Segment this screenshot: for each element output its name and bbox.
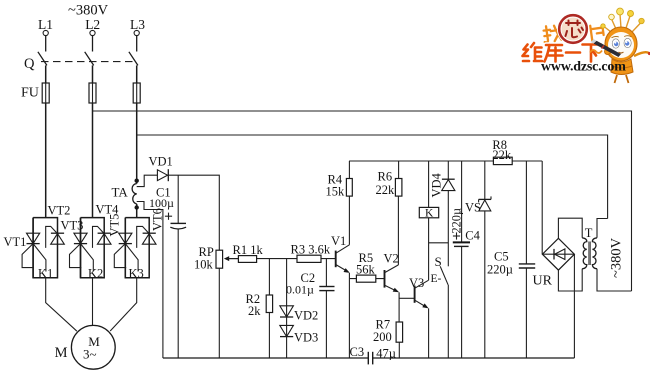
diode VD1 <box>157 169 168 181</box>
wire C2 branch top <box>325 259 327 287</box>
label C1 plus sign <box>165 213 172 220</box>
svg-text:E-: E- <box>431 273 442 285</box>
wire C4 branch top <box>461 161 463 242</box>
resistor R7 <box>396 322 403 342</box>
capacitor C1 (electrolytic) <box>170 223 186 229</box>
capacitor C3 <box>368 352 372 365</box>
transformer T secondary winding <box>582 238 587 269</box>
wire pair2 left leg <box>80 218 82 278</box>
transformer T core <box>589 242 590 266</box>
wire L3 switch to TA <box>136 65 138 183</box>
wire K top to rail <box>428 161 430 207</box>
capacitor C5 <box>519 264 535 268</box>
wire L3 TA to pair3 <box>136 204 138 218</box>
capacitor C2 <box>319 287 334 291</box>
zener diode VS <box>479 196 491 211</box>
wire V1 collector to R4 <box>348 196 350 245</box>
svg-text:TA: TA <box>112 185 129 200</box>
wire fuse1 element <box>45 83 47 103</box>
wire VD1 cathode to RP branch <box>168 175 220 250</box>
svg-text:0.01µ: 0.01µ <box>286 283 314 297</box>
transistor V1 <box>336 245 350 273</box>
wire VT5 cathode hook <box>114 244 126 268</box>
potentiometer RP <box>216 250 223 268</box>
wire VT3 gate <box>81 244 94 272</box>
wire V2 emitter junction <box>398 292 400 322</box>
svg-text:VD3: VD3 <box>294 331 318 345</box>
thyristor VT6 <box>142 233 156 244</box>
switch Q pole 3 blade <box>129 52 138 66</box>
wire pair3 left leg <box>124 218 126 278</box>
wire base bus (RP to V1 base) <box>227 258 336 260</box>
thyristor VT2 <box>51 233 65 244</box>
wire V2 collector to R6 <box>397 196 399 265</box>
wire C5 bottom to rail <box>525 268 527 358</box>
wire pair2 to motor <box>92 278 94 326</box>
relay K coil box <box>419 207 438 217</box>
wire R2 branch <box>268 259 270 358</box>
wire V2 emitter to V3 base <box>399 297 415 299</box>
thyristor VT1 <box>27 233 40 243</box>
wire TA bottom tap to common rail <box>137 202 163 359</box>
svg-text:VT2: VT2 <box>48 204 71 218</box>
wire S bottom to rail <box>447 285 449 358</box>
wire VT2 gate hook <box>46 226 57 248</box>
wire pair1 left leg <box>32 218 34 278</box>
node L3 terminal <box>130 17 145 36</box>
wire fuse3 element <box>136 83 138 103</box>
svg-text:www.dzsc.com: www.dzsc.com <box>541 60 626 75</box>
svg-text:VT6: VT6 <box>151 208 165 231</box>
wire UR top AC to T secondary <box>558 218 582 238</box>
wire C4 bottom to rail <box>461 246 463 358</box>
wire pair1 to motor <box>46 278 77 331</box>
wire L3 drop to switch <box>136 36 138 52</box>
wire 380V feed B (L3 to transformer) <box>137 135 608 219</box>
wire K bottom to VD4 link <box>429 242 449 244</box>
wire C1 positive lead <box>177 175 179 223</box>
wire V3 collector to relay K <box>428 218 430 280</box>
wire T primary top lead <box>597 219 608 238</box>
svg-text:3~: 3~ <box>83 347 97 362</box>
thyristor module 3 frame <box>125 218 149 278</box>
wire VS branch top <box>484 161 486 199</box>
wire bottom common rail left <box>163 357 368 359</box>
svg-text:VD2: VD2 <box>294 309 318 323</box>
wire VT4 gate hook <box>93 226 104 248</box>
svg-text:FU: FU <box>21 86 39 101</box>
wire UR minus to bottom rail <box>573 254 575 358</box>
fuse FU3 <box>133 83 140 103</box>
svg-text:VT5: VT5 <box>108 214 122 237</box>
resistor R2 <box>266 295 272 313</box>
thyristor VT4 <box>97 233 111 244</box>
svg-text:Q: Q <box>24 56 35 72</box>
wire 380V feed A (L2 to transformer right leg) <box>93 111 632 291</box>
switch Q pole 2 blade <box>85 52 94 66</box>
resistor R8 <box>493 157 512 164</box>
thyristor module 2 frame <box>81 218 105 278</box>
svg-text:2k: 2k <box>248 304 261 318</box>
svg-text:C3: C3 <box>350 345 365 359</box>
wire pair3 to motor <box>110 278 137 331</box>
wire VD4 branch top <box>447 161 449 179</box>
wire VT5 gate <box>125 244 138 272</box>
motor M circle <box>71 325 115 369</box>
transformer T primary winding <box>592 238 597 269</box>
capacitor C4 (electrolytic) <box>453 242 470 246</box>
transistor V3 <box>415 280 429 308</box>
resistor R3 <box>297 255 321 262</box>
wire fuse2 element <box>92 83 94 103</box>
svg-text:L3: L3 <box>130 17 145 32</box>
svg-text:K3: K3 <box>129 267 144 281</box>
svg-text:V1: V1 <box>331 234 346 248</box>
wire R7 bottom to rail <box>398 342 400 358</box>
wire VT3 cathode hook <box>70 244 82 268</box>
svg-text:V3: V3 <box>409 276 424 290</box>
svg-text:200: 200 <box>373 330 392 344</box>
svg-text:10k: 10k <box>194 258 214 272</box>
thyristor VT3 <box>74 233 87 243</box>
wire L1 drop to switch <box>45 36 47 52</box>
svg-text:R6: R6 <box>378 170 393 184</box>
wire C1 negative lead to bottom rail <box>177 229 179 358</box>
switch Q pole 1 blade <box>38 52 47 66</box>
svg-text:22k: 22k <box>376 183 396 197</box>
wire V3 emitter to bottom rail <box>428 308 430 358</box>
svg-text:56k: 56k <box>356 263 376 277</box>
node L2 terminal <box>85 17 100 36</box>
thyristor VT5 <box>119 233 132 243</box>
svg-text:C5: C5 <box>494 250 509 264</box>
svg-text:K: K <box>425 208 434 220</box>
switch S blade <box>440 266 448 285</box>
watermark logo group <box>523 8 650 83</box>
node TA top junction dot <box>135 179 139 183</box>
svg-text:V2: V2 <box>384 252 399 266</box>
label T <box>584 226 593 240</box>
svg-text:UR: UR <box>533 274 553 289</box>
wire L1 switch to pair1 <box>45 65 47 217</box>
wire UR bottom AC to T secondary <box>558 269 582 291</box>
wire C2 branch bottom <box>325 291 327 358</box>
diode VD2 <box>280 306 294 317</box>
svg-text:15k: 15k <box>326 185 346 199</box>
fuse FU1 <box>42 83 49 103</box>
svg-text:220µ: 220µ <box>449 208 463 234</box>
switch Q gang dashed link <box>41 61 134 63</box>
svg-text:M: M <box>55 345 68 361</box>
wire RP bottom to rail <box>218 268 220 358</box>
diode VD4 <box>442 179 455 190</box>
wire positive rail <box>349 160 542 162</box>
thyristor module 1 frame <box>33 218 57 278</box>
svg-text:L2: L2 <box>85 17 100 32</box>
wire R6 top to rail <box>398 161 400 179</box>
svg-text:VT3: VT3 <box>61 219 84 233</box>
svg-text:22k: 22k <box>492 148 512 162</box>
inductor TA winding <box>132 184 137 204</box>
transistor V2 <box>385 265 400 292</box>
wire bottom common rail right <box>373 357 575 359</box>
node L1 terminal <box>38 17 53 36</box>
wire R5 link <box>349 278 384 280</box>
node TA bottom junction dot <box>135 205 139 209</box>
wire R4 top to rail <box>348 161 350 179</box>
wire VT1 cathode hook <box>22 244 34 268</box>
svg-text:VD4: VD4 <box>430 172 444 197</box>
svg-text:VT1: VT1 <box>4 235 27 249</box>
svg-text:100µ: 100µ <box>149 196 174 210</box>
wire L2 switch to pair2 <box>92 65 94 217</box>
wire VD2 VD3 branch <box>286 259 288 358</box>
resistor R4 <box>346 179 352 197</box>
svg-text:L1: L1 <box>38 17 53 32</box>
svg-text:T: T <box>585 226 593 240</box>
diode VD3 <box>280 325 294 336</box>
svg-text:R3 3.6k: R3 3.6k <box>291 243 331 257</box>
svg-text:K2: K2 <box>88 267 103 281</box>
resistor R5 <box>356 275 375 282</box>
wire VS bottom to rail <box>484 211 486 358</box>
wire RP wiper arrow <box>224 256 239 261</box>
wire VD4 anode down to switch S <box>447 191 449 267</box>
wire VT6 gate hook <box>137 226 149 248</box>
rectifier UR bridge <box>542 238 574 270</box>
fuse FU2 <box>89 83 96 103</box>
label C4 plus sign <box>453 232 460 239</box>
wire T primary bottom lead <box>597 269 632 291</box>
wire C5 branch top <box>525 161 527 264</box>
svg-text:C4: C4 <box>465 229 480 243</box>
svg-text:~380V: ~380V <box>609 237 625 278</box>
svg-text:R1 1k: R1 1k <box>233 243 264 257</box>
wire VT1 gate <box>33 244 46 272</box>
wire V1 emitter leg to bottom rail <box>348 273 350 358</box>
wire TA top tap to VD1 <box>137 175 158 186</box>
wire L2 drop to switch <box>92 36 94 52</box>
resistor R1 <box>238 256 256 263</box>
resistor R6 <box>395 179 402 197</box>
svg-text:VD1: VD1 <box>149 155 173 169</box>
svg-text:VS: VS <box>465 201 481 215</box>
wire rail down to UR plus <box>541 161 543 254</box>
svg-text:S: S <box>435 254 442 269</box>
svg-text:220µ: 220µ <box>487 263 513 277</box>
